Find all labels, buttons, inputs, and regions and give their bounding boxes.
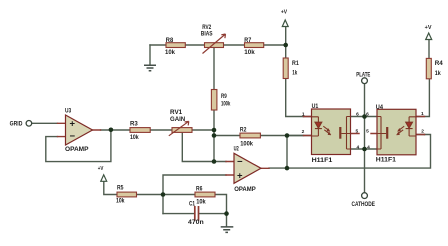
svg-text:C1: C1 bbox=[189, 201, 195, 208]
svg-text:+: + bbox=[70, 119, 76, 130]
svg-text:R1: R1 bbox=[292, 60, 299, 67]
svg-text:R5: R5 bbox=[117, 184, 124, 191]
svg-text:6: 6 bbox=[366, 111, 369, 117]
svg-text:R7: R7 bbox=[244, 37, 251, 44]
svg-text:10k: 10k bbox=[165, 49, 175, 56]
svg-text:U3: U3 bbox=[65, 107, 72, 114]
svg-text:2: 2 bbox=[421, 128, 424, 134]
svg-text:R4: R4 bbox=[435, 60, 443, 67]
svg-text:+V: +V bbox=[425, 25, 432, 31]
svg-text:H11F1: H11F1 bbox=[312, 157, 333, 164]
svg-text:GAIN: GAIN bbox=[170, 116, 186, 123]
svg-text:1: 1 bbox=[302, 111, 305, 117]
svg-text:R2: R2 bbox=[240, 127, 247, 134]
svg-text:−: − bbox=[70, 131, 76, 142]
svg-text:R6: R6 bbox=[196, 185, 203, 192]
svg-text:BIAS: BIAS bbox=[201, 30, 213, 37]
svg-text:2: 2 bbox=[302, 129, 305, 135]
svg-text:GRID: GRID bbox=[10, 120, 23, 127]
svg-text:4: 4 bbox=[367, 145, 370, 151]
svg-text:10k: 10k bbox=[196, 198, 206, 205]
svg-text:+V: +V bbox=[281, 10, 288, 16]
svg-text:CATHODE: CATHODE bbox=[352, 201, 376, 208]
svg-text:U2: U2 bbox=[234, 145, 239, 152]
svg-text:R3: R3 bbox=[130, 120, 138, 127]
svg-text:10k: 10k bbox=[116, 198, 125, 205]
svg-text:RV1: RV1 bbox=[170, 109, 183, 116]
svg-text:5: 5 bbox=[366, 128, 369, 134]
svg-text:100k: 100k bbox=[240, 141, 253, 148]
svg-text:1k: 1k bbox=[292, 69, 297, 76]
svg-text:R9: R9 bbox=[221, 93, 227, 100]
svg-text:OPAMP: OPAMP bbox=[65, 146, 89, 153]
svg-text:10k: 10k bbox=[244, 49, 255, 56]
svg-text:R8: R8 bbox=[166, 37, 174, 44]
svg-text:PLATE: PLATE bbox=[356, 72, 370, 79]
svg-text:U4: U4 bbox=[376, 104, 384, 111]
svg-text:1: 1 bbox=[421, 111, 424, 117]
svg-text:4: 4 bbox=[356, 145, 359, 151]
svg-text:−: − bbox=[237, 157, 243, 168]
svg-text:+V: +V bbox=[98, 166, 104, 172]
svg-text:U1: U1 bbox=[312, 103, 319, 110]
svg-text:100k: 100k bbox=[221, 100, 231, 107]
svg-text:1k: 1k bbox=[435, 70, 441, 77]
svg-text:5: 5 bbox=[355, 128, 358, 134]
svg-text:10k: 10k bbox=[130, 134, 139, 141]
svg-text:+: + bbox=[237, 171, 243, 182]
svg-text:470n: 470n bbox=[188, 219, 204, 226]
svg-text:6: 6 bbox=[356, 111, 359, 117]
svg-text:H11F1: H11F1 bbox=[376, 156, 397, 163]
svg-text:OPAMP: OPAMP bbox=[234, 186, 256, 193]
